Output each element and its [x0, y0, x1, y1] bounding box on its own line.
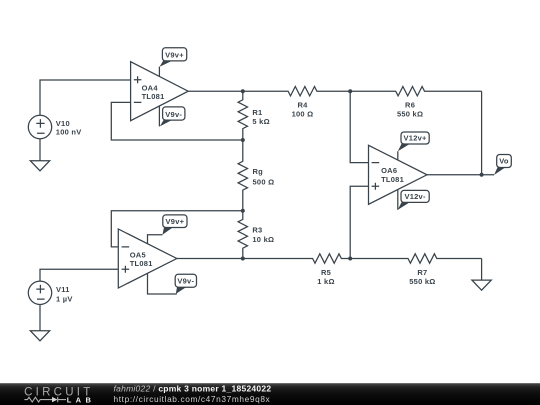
- svg-text:R6: R6: [405, 101, 415, 110]
- net flag V12v- OA6: [398, 190, 429, 209]
- svg-text:LAB: LAB: [67, 395, 96, 404]
- resistor Rg: [238, 140, 247, 211]
- svg-text:Vo: Vo: [499, 157, 509, 166]
- svg-text:V9v-: V9v-: [177, 277, 194, 286]
- svg-text:R5: R5: [321, 268, 331, 277]
- svg-text:fahmi022 / cpmk 3 nomer 1_1852: fahmi022 / cpmk 3 nomer 1_18524022: [114, 384, 272, 394]
- svg-text:V9v+: V9v+: [166, 217, 185, 226]
- svg-text:V9v+: V9v+: [165, 50, 184, 59]
- resistor R3: [238, 211, 247, 259]
- op-amp OA6: [369, 145, 428, 209]
- svg-text:1 µV: 1 µV: [56, 294, 73, 303]
- logo resistor-diode symbol: [24, 397, 66, 402]
- svg-text:TL081: TL081: [130, 259, 153, 268]
- node dot A (R1 top): [241, 89, 245, 93]
- node dot B (R4/R6 junction): [348, 89, 352, 93]
- wire node to OA6 + input: [350, 186, 368, 258]
- ground right of R7: [472, 280, 491, 290]
- op-amp OA5: [118, 229, 177, 294]
- wire OA5 output rail: [177, 258, 243, 260]
- net flag V9v+ OA4: [160, 48, 187, 67]
- node dot C (R1/Rg junction): [241, 138, 245, 142]
- svg-text:R4: R4: [297, 101, 308, 110]
- wire OA5 feedback: [111, 211, 243, 247]
- svg-text:Rg: Rg: [253, 167, 264, 176]
- wire OA4 feedback: [111, 102, 243, 140]
- footer bar: [0, 383, 540, 405]
- net flag V12v+ OA6: [398, 132, 429, 151]
- wire node to OA6 - input: [350, 91, 368, 162]
- ground below V11: [30, 331, 49, 341]
- svg-text:R1: R1: [252, 108, 262, 117]
- svg-text:500 Ω: 500 Ω: [253, 178, 275, 187]
- voltage source V10: [28, 115, 51, 138]
- svg-text:TL081: TL081: [142, 92, 165, 101]
- svg-text:V12v+: V12v+: [404, 134, 428, 143]
- wire OA6 output: [427, 174, 494, 176]
- node dot D (Rg/R3 junction): [241, 209, 245, 213]
- wire R7 to ground: [481, 259, 483, 281]
- wire V10 top to OA4 + input: [40, 80, 131, 115]
- resistor R7: [350, 254, 481, 263]
- wire R6 to output node: [481, 91, 483, 175]
- resistor R6: [350, 86, 481, 95]
- net flag V9v- OA5: [175, 274, 196, 294]
- resistor R1: [238, 91, 247, 140]
- wire V11 to OA5 + input: [40, 269, 118, 281]
- node dot G (output): [480, 173, 484, 177]
- wire V11 bottom to ground: [39, 304, 41, 331]
- node dot E (R3 bottom): [241, 257, 245, 261]
- resistor R4: [243, 86, 350, 95]
- svg-text:V12v-: V12v-: [404, 192, 426, 201]
- node dot F (R5/R7 junction): [348, 257, 352, 261]
- net flag V9v+ OA5: [162, 215, 187, 235]
- ground below V10: [30, 161, 49, 171]
- resistor R5: [243, 254, 350, 263]
- net flag Vo output: [494, 155, 511, 176]
- net flag V9v- OA4: [160, 107, 185, 127]
- svg-text:100 nV: 100 nV: [56, 128, 82, 137]
- svg-text:http://circuitlab.com/c47n37mh: http://circuitlab.com/c47n37mhe9q8x: [114, 394, 271, 404]
- voltage source V11: [28, 281, 51, 304]
- svg-text:550 kΩ: 550 kΩ: [409, 277, 435, 286]
- svg-text:V9v-: V9v-: [165, 110, 182, 119]
- svg-text:550 kΩ: 550 kΩ: [397, 110, 423, 119]
- svg-text:10 kΩ: 10 kΩ: [252, 235, 274, 244]
- svg-text:5 kΩ: 5 kΩ: [252, 117, 269, 126]
- svg-text:R3: R3: [252, 226, 262, 235]
- svg-text:1 kΩ: 1 kΩ: [317, 277, 334, 286]
- svg-text:R7: R7: [417, 268, 427, 277]
- svg-text:100 Ω: 100 Ω: [292, 110, 314, 119]
- wire V10 bottom to ground: [39, 138, 41, 161]
- op-amp OA4: [131, 62, 189, 127]
- svg-text:TL081: TL081: [381, 175, 404, 184]
- wire OA4 output rail: [188, 90, 243, 92]
- svg-text:V11: V11: [56, 285, 70, 294]
